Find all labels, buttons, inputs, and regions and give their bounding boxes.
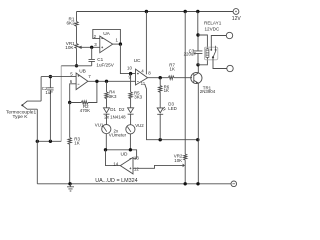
svg-text:VU1: VU1 xyxy=(95,122,104,127)
node emitter bottom xyxy=(196,182,199,185)
svg-text:4: 4 xyxy=(141,68,144,73)
svg-text:1K: 1K xyxy=(170,67,175,72)
wire TC plus up to UB pin5 xyxy=(41,77,76,102)
wire coil top feed xyxy=(198,35,207,49)
svg-text:Type K: Type K xyxy=(13,114,29,120)
terminal ground xyxy=(231,181,237,187)
node R6 top junction xyxy=(159,76,162,79)
wire UC pin4 supply from rail xyxy=(145,12,147,75)
svg-text:UB: UB xyxy=(79,69,86,75)
node TC minus column junction xyxy=(36,140,39,143)
svg-text:10K: 10K xyxy=(65,45,74,50)
resistor R1 xyxy=(75,12,78,44)
svg-text:1K: 1K xyxy=(164,88,169,93)
resistor R4 3K3 xyxy=(105,81,108,108)
svg-text:6: 6 xyxy=(70,79,73,84)
svg-text:UD: UD xyxy=(121,152,128,158)
svg-text:UA: UA xyxy=(103,31,110,37)
svg-text:8: 8 xyxy=(148,71,151,76)
node VU2 bottom xyxy=(129,148,132,151)
node VR1 bottom on ground wire xyxy=(75,64,78,67)
node collector / coil bottom xyxy=(196,63,199,66)
svg-text:12: 12 xyxy=(134,166,139,171)
wire UD output leg xyxy=(106,150,121,166)
svg-text:12VDC: 12VDC xyxy=(205,27,220,32)
node C3 top / coil top xyxy=(196,33,199,36)
svg-text:10K: 10K xyxy=(174,158,182,163)
wire UA output down to UC pin10 xyxy=(120,44,135,74)
node junction top rail to VR2 xyxy=(184,10,187,13)
terminal 12V xyxy=(233,9,239,15)
svg-text:5: 5 xyxy=(70,71,73,76)
svg-text:LED: LED xyxy=(168,106,177,111)
relay contact xyxy=(210,49,212,51)
relay RELAY1 box xyxy=(204,47,217,60)
svg-text:1uF/25V: 1uF/25V xyxy=(96,62,114,67)
wire UD pin12 to VR2 wiper xyxy=(133,165,183,168)
capacitor C1 xyxy=(89,47,95,66)
resistor R5 3K3 xyxy=(129,74,132,108)
wire UB output to UC pin9 xyxy=(88,80,136,82)
node R5 top junction xyxy=(129,72,132,75)
wire TC minus down to ground rail xyxy=(36,109,38,184)
svg-text:1K: 1K xyxy=(74,140,79,145)
wire UC pin11 to ground bus xyxy=(145,84,160,140)
svg-text:14: 14 xyxy=(113,162,118,167)
svg-text:RELAY1: RELAY1 xyxy=(204,21,222,26)
svg-text:220uF: 220uF xyxy=(184,52,197,57)
op-amp UB xyxy=(76,73,88,90)
svg-text:D1: D1 xyxy=(110,107,116,112)
svg-text:6K2: 6K2 xyxy=(67,21,76,26)
node emitter column junction xyxy=(196,138,199,141)
svg-text:3K3: 3K3 xyxy=(134,95,142,100)
node C1 tap on pin3 wire xyxy=(90,46,93,49)
wire UD output bus xyxy=(106,150,137,159)
op-amp UA xyxy=(100,36,113,53)
svg-text:UC: UC xyxy=(134,58,141,64)
svg-text:3: 3 xyxy=(94,42,97,47)
svg-text:VU2: VU2 xyxy=(135,123,144,128)
node D3 cathode junction xyxy=(159,138,162,141)
svg-text:VUmeter: VUmeter xyxy=(109,133,127,138)
node C2 bottom junction xyxy=(49,140,52,143)
node UB feedback junction xyxy=(95,80,98,83)
svg-text:3K3: 3K3 xyxy=(109,94,117,99)
capacitor C3 xyxy=(194,12,203,65)
wire gray vertical ground link xyxy=(60,66,62,142)
diode D2 xyxy=(128,108,134,125)
wire contact common to terminal xyxy=(213,58,227,69)
wire UA output xyxy=(113,43,121,45)
resistor R3 1K xyxy=(68,103,71,184)
svg-text:10: 10 xyxy=(127,66,132,71)
node R4 top junction xyxy=(105,80,108,83)
svg-text:13: 13 xyxy=(134,156,139,161)
wire UA feedback loop xyxy=(93,29,121,44)
wire VR1 wiper to UA pin3 xyxy=(82,46,100,48)
resistor R6 1K xyxy=(159,78,162,108)
svg-text:1: 1 xyxy=(116,38,119,43)
svg-text:2N3904: 2N3904 xyxy=(200,89,216,94)
transistor TR1 xyxy=(191,72,202,83)
thermocouple connector xyxy=(22,101,41,109)
node UA output xyxy=(119,42,122,45)
op-amp UD xyxy=(120,157,133,174)
wire UC output xyxy=(148,77,169,79)
wire ground net horizontal (C1/C2/VR1 bottom) xyxy=(61,65,91,67)
wire coil bottom xyxy=(198,57,207,64)
resistor R7 1K xyxy=(168,76,192,79)
wire +12V top rail xyxy=(77,11,234,13)
node VR2 bottom xyxy=(184,182,187,185)
node R2/R3 junction xyxy=(68,101,71,104)
capacitor C2 xyxy=(47,77,53,142)
meter VU1 xyxy=(102,125,111,134)
op-amp UC xyxy=(136,69,148,85)
terminal relay out 2 xyxy=(227,65,233,71)
wire ground rail bottom xyxy=(37,183,231,185)
svg-text:470K: 470K xyxy=(80,108,90,113)
svg-text:1uF: 1uF xyxy=(45,90,53,95)
node junction top rail to relay/C3 xyxy=(196,10,199,13)
diode D1 xyxy=(104,108,110,125)
wire ground link bottom horizontal xyxy=(37,140,61,142)
ground symbol xyxy=(67,184,74,191)
svg-text:D2: D2 xyxy=(119,107,125,112)
node junction top rail to UC pin4 xyxy=(145,10,148,13)
node C2 top on pin5 wire xyxy=(49,75,52,78)
node R3 bottom / ground xyxy=(68,182,71,185)
LED D3 xyxy=(157,108,163,140)
svg-text:2x 1N4148: 2x 1N4148 xyxy=(104,114,126,119)
svg-text:7: 7 xyxy=(88,74,91,79)
relay coil xyxy=(206,49,209,58)
resistor R2 470K xyxy=(70,81,97,104)
meter VU2 xyxy=(126,125,135,134)
potentiometer VR1 xyxy=(75,44,78,66)
wire UB pin6 stub xyxy=(70,84,76,103)
potentiometer VR2 xyxy=(184,12,187,184)
terminal relay out 1 xyxy=(226,32,232,38)
node VU1 bottom / UD out xyxy=(104,148,107,151)
svg-text:UA...UD = LM324: UA...UD = LM324 xyxy=(95,178,137,184)
wire contact NO to terminal xyxy=(211,36,226,50)
svg-text:12V: 12V xyxy=(232,16,242,22)
wire ground bus to emitter column xyxy=(160,139,198,141)
